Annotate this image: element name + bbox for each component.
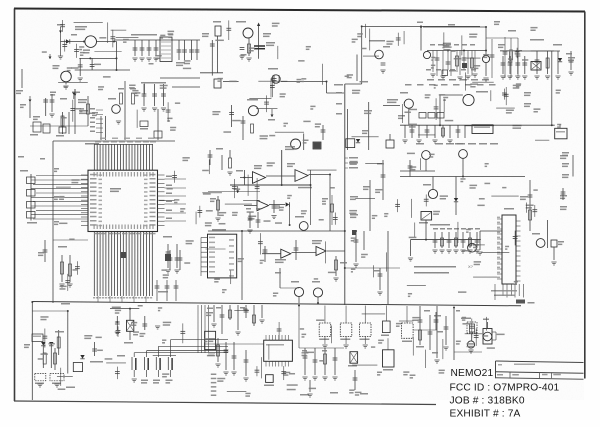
svg-text:JOB # : 318BK0: JOB # : 318BK0 <box>450 395 525 406</box>
svg-text:FCC ID : O7MPRO-401: FCC ID : O7MPRO-401 <box>450 382 560 393</box>
svg-text:EXHIBIT # : 7A: EXHIBIT # : 7A <box>450 408 521 419</box>
svg-text:NEMO21: NEMO21 <box>451 368 494 379</box>
svg-text:X?: X? <box>468 264 474 269</box>
